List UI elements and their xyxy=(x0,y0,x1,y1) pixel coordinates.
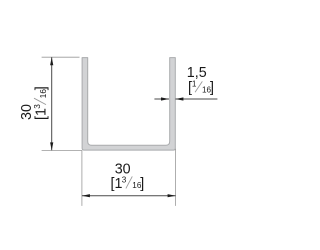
thickness dimension: text [1/16] xyxy=(188,79,214,96)
svg-text:[1: [1 xyxy=(33,108,49,120)
svg-text:3: 3 xyxy=(122,175,127,184)
left dimension: dimension line xyxy=(51,57,53,150)
svg-text:3: 3 xyxy=(33,104,42,109)
U-channel profile body xyxy=(82,58,175,151)
bottom dimension: arrowheads xyxy=(82,194,90,197)
bottom dimension: extension lines xyxy=(81,151,83,206)
left dimension: text [1 3/16] (rotated) xyxy=(33,86,50,120)
thickness dimension: dimension lines with outside arrows xyxy=(154,98,169,100)
svg-text:]: ] xyxy=(33,86,49,90)
left dimension: extension lines xyxy=(42,56,80,58)
svg-text:1: 1 xyxy=(192,79,197,88)
svg-text:]: ] xyxy=(140,176,144,192)
svg-text:]: ] xyxy=(210,80,214,96)
thickness dimension: arrowheads xyxy=(161,97,169,100)
left dimension: arrowheads xyxy=(50,57,53,65)
bottom dimension: dimension line xyxy=(82,195,176,197)
svg-text:1,5: 1,5 xyxy=(187,65,207,81)
svg-text:[1: [1 xyxy=(111,176,123,192)
bottom dimension: text [1 3/16] xyxy=(111,175,145,192)
